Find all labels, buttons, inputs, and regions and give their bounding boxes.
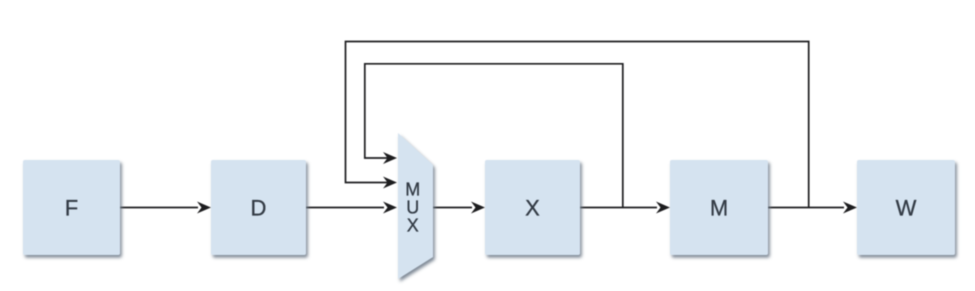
- svg-text:F: F: [65, 196, 78, 221]
- svg-text:W: W: [896, 196, 917, 221]
- svg-text:U: U: [406, 198, 419, 218]
- svg-text:D: D: [251, 196, 267, 221]
- svg-text:X: X: [407, 216, 419, 236]
- svg-text:M: M: [405, 180, 420, 200]
- svg-text:X: X: [525, 196, 540, 221]
- svg-text:M: M: [710, 196, 728, 221]
